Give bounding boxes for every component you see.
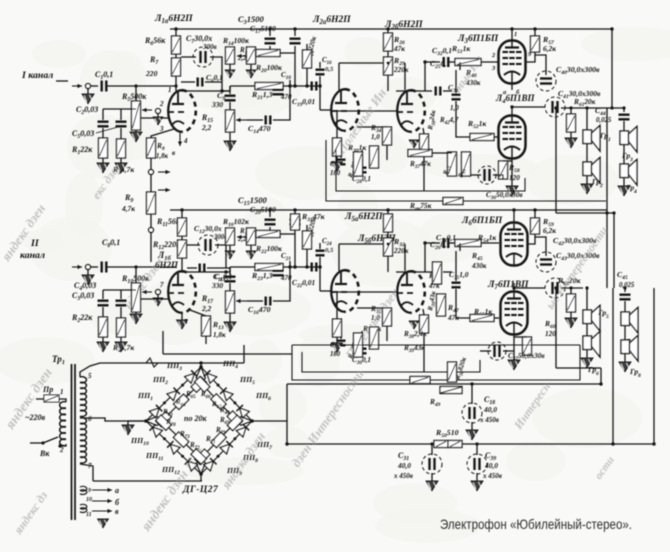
svg-text:1,0: 1,0	[371, 133, 380, 141]
ground C39	[476, 473, 478, 481]
svg-text:47к: 47к	[393, 45, 405, 53]
svg-text:6: 6	[88, 415, 92, 423]
svg-text:0,5: 0,5	[325, 247, 334, 254]
svg-text:2,2: 2,2	[237, 236, 247, 243]
resistor R73	[173, 432, 188, 447]
ground R5	[135, 130, 137, 132]
diode ПП2	[167, 388, 180, 401]
ground R61	[570, 132, 572, 138]
bridge top corner wire	[200, 363, 202, 369]
svg-text:40,0: 40,0	[484, 461, 498, 470]
ground Гр4	[623, 177, 625, 186]
svg-text:~220в: ~220в	[25, 413, 46, 422]
resistor R63	[156, 411, 171, 426]
svg-text:Гр: Гр	[621, 151, 630, 160]
svg-text:40,0: 40,0	[397, 461, 411, 470]
resistor R57a	[370, 146, 379, 168]
svg-text:ДГ-Ц27: ДГ-Ц27	[182, 485, 219, 495]
svg-text:1,8к: 1,8к	[213, 331, 226, 339]
resistor R69	[227, 415, 242, 430]
feedback box I	[326, 140, 606, 201]
ground C31	[431, 473, 433, 481]
ground Гр2	[586, 175, 588, 184]
wire output return II	[555, 287, 557, 368]
wire right risers	[600, 368, 602, 384]
bridge outer rail	[146, 367, 201, 421]
wire terminal 7	[80, 464, 93, 481]
resistor R74	[156, 415, 171, 430]
svg-text:40,0: 40,0	[483, 405, 497, 414]
svg-text:0,025: 0,025	[596, 117, 612, 124]
ground R4	[120, 337, 122, 342]
ground input I	[87, 89, 89, 94]
svg-text:4: 4	[183, 137, 188, 145]
svg-text:220к: 220к	[393, 247, 409, 255]
svg-text:1,0: 1,0	[371, 314, 380, 322]
wire input II	[91, 266, 98, 268]
svg-text:180: 180	[330, 351, 341, 358]
svg-text:8: 8	[638, 373, 641, 379]
wire anode row I	[181, 90, 230, 92]
svg-text:1,0: 1,0	[450, 104, 459, 112]
cathode wire R8	[151, 129, 174, 138]
svg-text:II: II	[30, 238, 40, 249]
svg-text:Л2б6Н2П: Л2б6Н2П	[384, 20, 423, 31]
heater arrows а б в	[92, 489, 112, 491]
break squiggle	[146, 358, 158, 367]
resistor R64	[174, 394, 189, 409]
diode ПП5	[220, 388, 233, 401]
svg-text:2: 2	[159, 100, 164, 108]
speaker Гр6	[586, 323, 588, 336]
ground Л7 cathode	[513, 337, 515, 360]
svg-text:Гр: Гр	[629, 367, 638, 376]
resistor R66	[195, 377, 210, 392]
wire terminal 6	[80, 418, 146, 421]
resistor R70	[211, 432, 226, 447]
ground Гр6	[586, 349, 588, 358]
ground R10	[135, 312, 137, 314]
transformer heater windings	[80, 486, 87, 491]
ground mark Л2б cathode	[409, 140, 418, 148]
svg-text:х 450в: х 450в	[393, 472, 413, 480]
anode Л2а wires	[338, 63, 340, 90]
wire bus C main	[287, 443, 654, 445]
svg-text:Л2а6Н2П: Л2а6Н2П	[312, 15, 351, 26]
anode Л5а wires	[338, 244, 340, 271]
wire grid Л2а	[320, 109, 332, 111]
svg-text:а: а	[115, 486, 119, 495]
diode ПП11	[167, 441, 180, 454]
speaker Гр3	[623, 121, 625, 131]
svg-text:120: 120	[545, 330, 556, 338]
ground heater	[98, 519, 108, 528]
svg-text:Л76П1ВП: Л76П1ВП	[487, 280, 529, 291]
wire C8 to R10	[107, 266, 176, 268]
speaker Гр4	[623, 144, 625, 164]
svg-text:х 450в: х 450в	[482, 472, 502, 480]
svg-text:4: 4	[633, 189, 637, 195]
node feedback junction	[148, 169, 153, 174]
resistor R67	[211, 394, 226, 409]
svg-text:канал: канал	[20, 250, 45, 261]
svg-text:I канал: I канал	[21, 70, 53, 81]
anode Л5б	[404, 244, 406, 271]
diode ПП8	[220, 441, 233, 454]
svg-text:430к: 430к	[465, 79, 481, 87]
transformer secondary winding upper	[80, 377, 86, 383]
speaker Гр1	[586, 108, 588, 130]
svg-text:5: 5	[606, 314, 609, 320]
resistor R3 4,7к	[120, 128, 122, 139]
diode ПП3	[185, 370, 198, 383]
wire top bus I	[170, 28, 612, 30]
speaker Гр2	[586, 143, 588, 162]
svg-text:180: 180	[330, 170, 341, 177]
diode ПП1	[150, 405, 163, 418]
svg-text:10: 10	[86, 497, 92, 503]
svg-text:Гр: Гр	[597, 308, 606, 317]
anode Л2б	[404, 63, 406, 90]
wire input I	[91, 85, 98, 87]
cathode Л5б	[423, 309, 424, 315]
svg-text:2,2: 2,2	[201, 123, 212, 132]
grid stub II	[155, 289, 160, 294]
svg-text:Л36П1БП: Л36П1БП	[457, 34, 499, 45]
svg-text:5: 5	[88, 372, 92, 380]
svg-text:2: 2	[59, 446, 64, 454]
resistor R71	[195, 449, 210, 464]
bridge inner rail	[196, 367, 252, 425]
bridge bottom corner wire	[200, 474, 202, 481]
resistor R65	[191, 377, 206, 392]
divider resistors	[448, 152, 457, 176]
diode ПП4	[204, 370, 217, 383]
svg-text:4,7к: 4,7к	[121, 204, 135, 213]
resistor R72	[191, 449, 206, 464]
wire C1 to R5	[107, 85, 176, 87]
ground R1	[102, 158, 104, 163]
svg-text:430к: 430к	[471, 262, 487, 270]
svg-text:0,025: 0,025	[619, 282, 635, 289]
anode Л7 wire	[513, 283, 515, 292]
bridge inner rail	[196, 417, 252, 474]
ground input II	[87, 270, 89, 275]
diode ПП6	[236, 405, 249, 418]
svg-text:х 450в: х 450в	[479, 416, 499, 424]
wire output return I	[555, 107, 557, 213]
feedback box II	[292, 345, 580, 380]
svg-text:2,2: 2,2	[237, 55, 247, 62]
switch Вк	[41, 441, 44, 444]
grid Л2б wire	[332, 110, 397, 112]
diode ПП12	[150, 424, 163, 437]
ground R15	[229, 132, 231, 141]
speaker Гр7	[624, 301, 626, 312]
bridge inner rail	[146, 367, 205, 426]
svg-text:по 20к: по 20к	[184, 414, 207, 423]
bridge outer rail	[201, 421, 252, 474]
svg-text:120: 120	[509, 174, 520, 182]
svg-text:6,2к: 6,2к	[543, 44, 556, 53]
terminal input II	[72, 266, 82, 268]
wire top bus II	[170, 209, 607, 211]
diode ПП7	[236, 424, 249, 437]
wire lower left link	[162, 331, 164, 354]
grid Л5б wire	[332, 291, 397, 293]
svg-text:300в: 300в	[202, 43, 217, 51]
svg-text:6,2к: 6,2к	[543, 226, 556, 235]
svg-text:1: 1	[60, 388, 64, 396]
ground R17	[229, 313, 231, 322]
bridge right corner wire	[252, 421, 287, 444]
svg-text:0,5: 0,5	[325, 66, 334, 73]
svg-text:330: 330	[211, 100, 223, 109]
wire left bus A to amp	[243, 345, 245, 363]
anode Л4 wire	[511, 107, 513, 116]
ground Л1б	[181, 313, 183, 320]
svg-text:1: 1	[608, 137, 611, 143]
svg-text:Л1а6Н2П: Л1а6Н2П	[154, 14, 193, 25]
svg-text:Гр: Гр	[587, 365, 596, 374]
ground Гр8	[624, 353, 626, 362]
pot R14 box	[226, 47, 235, 64]
svg-text:7: 7	[160, 281, 164, 289]
svg-text:Л5а6Н2П: Л5а6Н2П	[344, 212, 383, 223]
speaker Гр8	[624, 325, 626, 340]
svg-text:Вк: Вк	[39, 449, 50, 458]
transformer core	[71, 364, 73, 520]
svg-text:1: 1	[168, 86, 172, 94]
bridge outer rail	[146, 421, 201, 474]
ground R62	[570, 312, 572, 318]
ground R3	[120, 158, 122, 163]
svg-text:1: 1	[514, 31, 517, 38]
svg-text:Пр: Пр	[42, 385, 53, 394]
svg-text:3: 3	[629, 157, 633, 163]
bridge corner dots	[144, 419, 148, 423]
resistor R68	[227, 411, 242, 426]
diode ПП10	[185, 458, 198, 471]
svg-text:6: 6	[596, 371, 599, 377]
wire terminal 5 to bus	[80, 363, 100, 377]
transformer primary winding	[60, 402, 66, 409]
wire speaker bus I	[611, 29, 613, 108]
node divider II	[148, 227, 153, 232]
resistor R48 слева	[410, 377, 430, 384]
speaker Гр5	[586, 288, 588, 310]
svg-text:в: в	[172, 149, 175, 157]
ground Л4 cathode	[511, 161, 513, 186]
bridge left corner ground	[128, 421, 146, 425]
svg-text:9: 9	[88, 488, 91, 494]
grid leak terminal	[155, 108, 160, 113]
svg-text:220к: 220к	[393, 66, 409, 74]
bridge inner rail	[146, 416, 205, 474]
svg-text:2: 2	[599, 183, 603, 189]
ground C18	[471, 422, 473, 430]
paper mottle	[179, 85, 269, 109]
wire bus A	[100, 362, 201, 364]
svg-text:в: в	[115, 507, 119, 516]
resistor R4 4,7к	[120, 307, 122, 318]
svg-text:220: 220	[145, 69, 158, 78]
wire grid Л5а	[320, 290, 332, 292]
svg-text:6Н2П: 6Н2П	[155, 260, 179, 270]
svg-text:Электрофон «Юбилейный-стерео».: Электрофон «Юбилейный-стерео».	[440, 516, 632, 532]
wire bus B filter	[287, 383, 601, 385]
cathode Л2б	[423, 128, 424, 134]
wire anode row II	[181, 271, 230, 273]
ground R2	[102, 337, 104, 342]
transformer secondary winding lower	[80, 418, 86, 424]
junction dots buses	[174, 27, 177, 30]
diode ПП9	[204, 458, 217, 471]
svg-text:Л66П1БП: Л66П1БП	[461, 216, 503, 227]
terminal input I	[72, 85, 82, 87]
svg-text:330: 330	[211, 281, 223, 290]
svg-text:1,8к: 1,8к	[156, 153, 168, 160]
svg-text:11: 11	[86, 512, 92, 518]
bridge outer rail	[201, 367, 252, 421]
svg-text:2,2: 2,2	[201, 304, 212, 313]
